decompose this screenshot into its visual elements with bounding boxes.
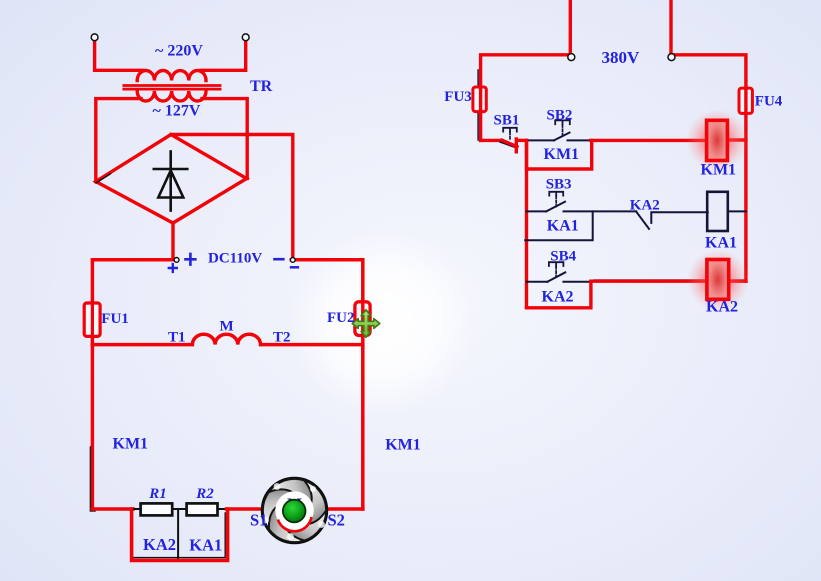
svg-text:SB1: SB1 [494,113,520,129]
svg-text:M: M [220,319,234,335]
svg-text:FU4: FU4 [755,94,783,110]
svg-text:~ 127V: ~ 127V [153,103,201,120]
svg-text:S2: S2 [328,511,345,530]
svg-text:SB2: SB2 [547,108,573,124]
svg-text:KM1: KM1 [113,436,149,453]
svg-text:FU3: FU3 [444,89,472,105]
svg-text:KA1: KA1 [547,217,579,234]
svg-text:SB4: SB4 [550,249,576,265]
svg-text:T1: T1 [168,330,186,346]
svg-text:380V: 380V [602,48,641,67]
svg-text:KA2: KA2 [630,198,660,214]
svg-text:R2: R2 [195,486,214,502]
svg-text:DC110V: DC110V [208,251,262,267]
svg-text:SB3: SB3 [546,177,572,193]
svg-text:T2: T2 [273,330,291,346]
svg-text:KM1: KM1 [701,161,737,178]
svg-text:~ 220V: ~ 220V [155,43,203,60]
svg-text:KA1: KA1 [189,536,222,555]
svg-text:KA1: KA1 [705,235,737,252]
svg-text:FU1: FU1 [101,311,129,327]
svg-text:TR: TR [250,78,273,95]
svg-text:FU2: FU2 [327,310,355,326]
svg-text:R1: R1 [148,486,167,502]
svg-text:KA2: KA2 [143,535,176,554]
svg-text:KA2: KA2 [542,289,574,306]
svg-text:S1: S1 [250,511,267,530]
svg-text:KM1: KM1 [385,437,421,454]
svg-text:KM1: KM1 [544,146,580,163]
svg-text:KA2: KA2 [706,298,738,315]
